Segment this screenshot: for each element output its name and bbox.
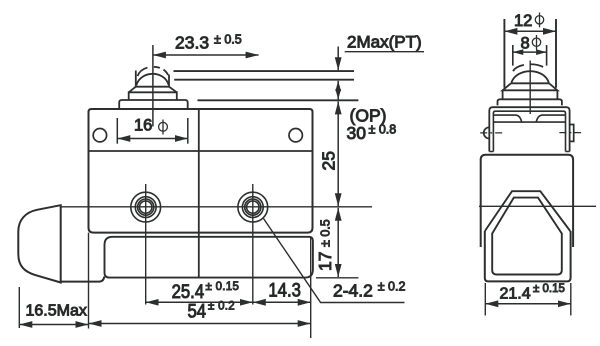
21.4 dimension line [485, 303, 571, 305]
leader line for 2-4.2 holes [264, 219, 405, 303]
25 dimension shaft (C to screw line) [337, 101, 339, 206]
plunger tier right view [503, 90, 558, 99]
cap neck bottom line [61, 277, 105, 282]
plunger mid step [129, 92, 177, 100]
mounting hole left [93, 129, 106, 142]
svg-text:17: 17 [315, 252, 335, 271]
plunger dome free position (dashed) [138, 67, 169, 76]
2Max(PT) underline leader [345, 51, 424, 53]
16-phi tick right [187, 118, 189, 144]
svg-text:± 0.2: ± 0.2 [208, 301, 235, 313]
plunger cylinder sides [504, 19, 556, 88]
dim text (OP) 30 +-0.8 [347, 106, 397, 144]
window roof outer [485, 191, 570, 231]
svg-text:54: 54 [187, 301, 206, 322]
svg-text:± 0.15: ± 0.15 [206, 281, 240, 293]
right view lower body [485, 231, 571, 281]
dome base line [511, 82, 549, 84]
svg-text:21.4: 21.4 [500, 285, 531, 302]
bracket inner line [493, 121, 565, 123]
dim text 16 phi [134, 117, 167, 135]
plunger flare right view [503, 83, 558, 90]
dim text 25.4 +-0.15 [172, 281, 240, 302]
right extension line (body edge) [310, 238, 312, 338]
side screw boss left (semicircle) [484, 127, 490, 138]
bracket spring tab right [536, 115, 565, 122]
switch body outline [89, 109, 313, 233]
25.4 dimension line [146, 301, 253, 303]
svg-text:2Max(PT): 2Max(PT) [347, 33, 422, 52]
lower terminal cover [105, 237, 313, 278]
svg-text:16.5Max: 16.5Max [26, 302, 87, 319]
body section divider horizontal [89, 150, 313, 152]
svg-text:± 0.8: ± 0.8 [369, 123, 397, 137]
mounting hole right [289, 129, 302, 142]
23.3 dimension line [153, 54, 259, 56]
svg-text:23.3: 23.3 [175, 32, 209, 52]
svg-text:16: 16 [134, 117, 152, 135]
svg-text:± 0.5: ± 0.5 [319, 219, 333, 247]
dim text 17 +-0.5 (rotated) [315, 219, 335, 271]
plunger base plate [119, 100, 188, 109]
dim text 23.3 +-0.5 [175, 32, 242, 52]
left body extension line [88, 233, 90, 329]
dim text 2-4.2 +-0.2 [333, 279, 405, 300]
side cap (bullet actuator) [18, 205, 60, 282]
travel line C (mount plane) [198, 99, 359, 101]
bracket inner [493, 111, 565, 151]
dim text 8 phi [521, 35, 541, 53]
8-phi extension lines [513, 45, 547, 66]
dome solid arc [511, 71, 549, 83]
travel line B (operating position) [174, 79, 354, 81]
21.4 extension lines [485, 283, 571, 316]
svg-text:12: 12 [514, 12, 532, 30]
dim text 12 phi [514, 12, 544, 30]
window walls and floor [492, 233, 562, 275]
dim text 54 +-0.2 [187, 301, 235, 322]
arrow down to line A [337, 47, 339, 71]
side screw centerline right [559, 132, 581, 134]
svg-text:30: 30 [347, 123, 367, 143]
plunger base plate right view [498, 99, 562, 105]
bracket outer [489, 107, 569, 151]
dome free position dashed arc [513, 64, 548, 71]
14.3 dimension line [253, 301, 311, 303]
svg-text:14.3: 14.3 [268, 279, 301, 300]
screw horizontal centerline [61, 206, 372, 208]
plunger flare [129, 87, 177, 93]
16.5Max dimension line [19, 324, 88, 326]
screw vertical centerline left [145, 184, 147, 305]
16-phi tick left [116, 118, 118, 144]
body section divider vertical [198, 109, 200, 277]
bracket spring tab left [493, 115, 521, 122]
12-phi dimension arrows [504, 30, 556, 32]
svg-text:± 0.5: ± 0.5 [214, 33, 242, 47]
side latch tab right [570, 125, 574, 142]
54 dimension line [89, 323, 311, 325]
plunger dome (pressed, solid) [136, 74, 168, 85]
right view vertical centerline [529, 61, 531, 115]
dim text 21.4 +-0.15 [500, 283, 565, 302]
side screw centerline left [480, 132, 503, 134]
screw vertical centerline right [252, 184, 254, 305]
bracket feet [489, 151, 569, 153]
svg-text:25: 25 [319, 151, 339, 170]
17 dimension shaft (screw line to cover bottom) [337, 208, 339, 277]
cover bottom extension line [316, 277, 358, 279]
16-phi dimension arrows [117, 138, 188, 140]
svg-text:8: 8 [521, 35, 530, 53]
terminal screw left [131, 192, 161, 222]
travel line A (free position) [174, 70, 355, 72]
right view horizontal centerline [479, 205, 596, 207]
terminal screw right [238, 192, 268, 222]
svg-text:25.4: 25.4 [172, 281, 205, 302]
plunger vertical centerline [152, 45, 154, 127]
cap tip extension line [18, 287, 20, 328]
double arrow between B and C [337, 81, 339, 95]
svg-text:2-4.2: 2-4.2 [333, 281, 373, 301]
plunger stem sides [136, 71, 169, 87]
8-phi dimension arrows [513, 51, 547, 53]
svg-text:± 0.2: ± 0.2 [378, 279, 406, 293]
window roof inner [492, 198, 562, 234]
right view upper body [481, 155, 573, 247]
svg-text:± 0.15: ± 0.15 [533, 283, 565, 295]
